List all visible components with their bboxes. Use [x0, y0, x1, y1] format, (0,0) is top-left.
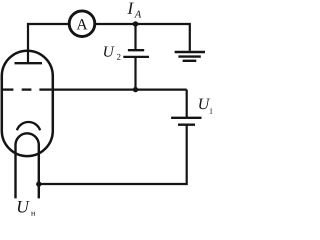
grid (dashed) — [3, 88, 52, 90]
wire battery U2 to middle node — [134, 57, 136, 90]
node bottom junction — [36, 181, 41, 186]
anode plate — [15, 62, 43, 64]
label U_1 — [199, 99, 210, 110]
battery U1 — [171, 118, 201, 125]
wire junction to battery U2 — [134, 24, 136, 49]
filament heater hairpin — [16, 133, 39, 198]
node junction I_A — [133, 21, 138, 26]
wire battery U1 to bottom — [39, 125, 187, 184]
cathode arc — [17, 122, 40, 130]
wire down to battery U1 — [186, 90, 188, 118]
wire anode lead to ammeter — [28, 24, 70, 63]
node middle junction — [133, 87, 138, 92]
ammeter A — [69, 11, 95, 37]
label U_н — [18, 201, 30, 213]
tube envelope V1 — [2, 51, 53, 156]
wire top (ammeter to corner, down to ground) — [96, 24, 190, 51]
battery U2 — [123, 50, 149, 57]
wire grid line to U1 branch — [53, 88, 187, 90]
ground — [175, 52, 205, 61]
label U_2 — [104, 46, 115, 56]
label I_A — [127, 3, 133, 14]
